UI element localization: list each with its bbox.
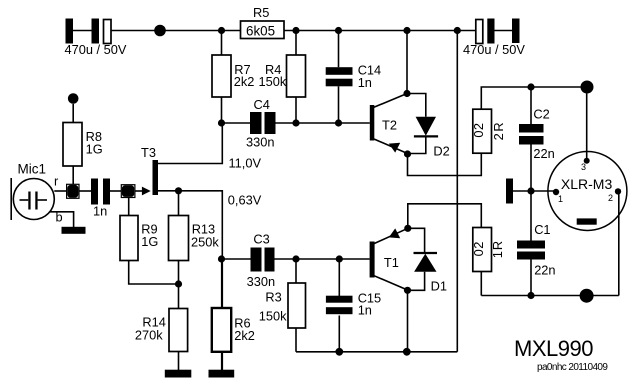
svg-text:C2: C2 xyxy=(533,107,549,122)
svg-text:C4: C4 xyxy=(254,97,270,112)
svg-text:22n: 22n xyxy=(534,263,555,278)
svg-text:0: 0 xyxy=(471,130,486,137)
svg-text:r: r xyxy=(54,174,59,189)
svg-text:0,63V: 0,63V xyxy=(228,193,262,208)
svg-text:1n: 1n xyxy=(358,303,372,318)
svg-text:D2: D2 xyxy=(433,143,449,158)
svg-text:C3: C3 xyxy=(253,232,269,247)
svg-text:1n: 1n xyxy=(358,75,372,90)
svg-text:250k: 250k xyxy=(191,234,219,249)
svg-text:XLR-M3: XLR-M3 xyxy=(561,176,613,192)
svg-text:470u / 50V: 470u / 50V xyxy=(65,42,127,57)
svg-text:T2: T2 xyxy=(382,118,397,133)
svg-text:1: 1 xyxy=(490,251,505,258)
svg-text:270k: 270k xyxy=(135,327,163,342)
svg-text:22n: 22n xyxy=(533,146,554,161)
svg-text:1n: 1n xyxy=(93,203,107,218)
svg-text:2: 2 xyxy=(491,133,506,140)
svg-text:MXL990: MXL990 xyxy=(514,336,593,361)
svg-text:C1: C1 xyxy=(534,222,550,237)
svg-text:6k05: 6k05 xyxy=(246,24,275,39)
svg-text:2: 2 xyxy=(471,123,486,130)
svg-text:Mic1: Mic1 xyxy=(18,162,47,177)
svg-text:150k: 150k xyxy=(259,309,287,324)
svg-text:1G: 1G xyxy=(141,234,158,249)
svg-text:11,0V: 11,0V xyxy=(229,156,262,171)
svg-text:330n: 330n xyxy=(246,135,274,150)
svg-text:330n: 330n xyxy=(247,274,275,289)
svg-text:2: 2 xyxy=(471,242,486,249)
svg-text:T3: T3 xyxy=(141,145,156,160)
svg-text:2k2: 2k2 xyxy=(234,328,255,343)
svg-text:2: 2 xyxy=(608,193,613,203)
svg-text:D1: D1 xyxy=(431,278,447,293)
svg-text:3: 3 xyxy=(581,162,586,172)
svg-text:0: 0 xyxy=(471,249,486,256)
svg-text:T1: T1 xyxy=(384,255,399,270)
svg-text:pa0nhc 20110409: pa0nhc 20110409 xyxy=(537,362,608,373)
svg-text:1: 1 xyxy=(558,194,563,204)
svg-text:2k2: 2k2 xyxy=(234,74,255,89)
svg-text:R: R xyxy=(490,241,505,250)
svg-text:1G: 1G xyxy=(86,142,103,157)
svg-text:R5: R5 xyxy=(253,5,269,20)
svg-text:R: R xyxy=(491,122,506,131)
svg-text:150k: 150k xyxy=(259,74,287,89)
svg-text:470u / 50V: 470u / 50V xyxy=(463,42,525,57)
svg-text:R3: R3 xyxy=(265,290,281,305)
